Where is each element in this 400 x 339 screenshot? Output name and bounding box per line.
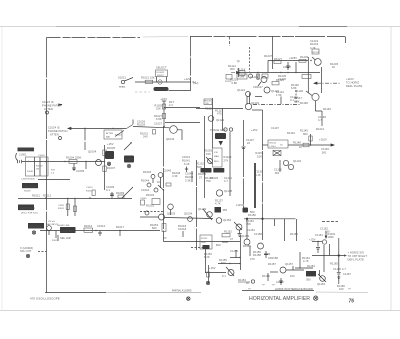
- svg-text:100K: 100K: [328, 235, 335, 239]
- svg-text:R1052: R1052: [146, 204, 155, 208]
- svg-text:Q1143: Q1143: [293, 159, 302, 163]
- svg-text:VAR ATTEN: VAR ATTEN: [20, 206, 35, 210]
- svg-text:Q1159: Q1159: [241, 234, 250, 238]
- svg-text:+15V: +15V: [309, 238, 316, 242]
- svg-text:+110V: +110V: [319, 138, 327, 142]
- svg-text:C1016: C1016: [97, 224, 106, 228]
- svg-text:476 OSCILLOSCOPE: 476 OSCILLOSCOPE: [30, 296, 60, 300]
- svg-text:4.7K: 4.7K: [215, 202, 221, 206]
- svg-text:ATTEN: ATTEN: [50, 132, 59, 136]
- svg-text:+225V: +225V: [289, 56, 297, 60]
- svg-text:Q1133: Q1133: [251, 101, 260, 105]
- svg-text:100: 100: [339, 287, 344, 291]
- svg-text:3.3K: 3.3K: [185, 179, 191, 183]
- svg-text:R1041: R1041: [182, 159, 191, 163]
- svg-text:1K: 1K: [332, 65, 336, 69]
- svg-text:CAL / VAR: CAL / VAR: [23, 184, 36, 188]
- svg-text:R1044: R1044: [141, 179, 150, 183]
- svg-text:DS1021: DS1021: [157, 72, 166, 74]
- svg-text:1 V/5 mV: 1 V/5 mV: [46, 221, 56, 223]
- svg-text:+15V: +15V: [251, 128, 258, 132]
- svg-text:C1157: C1157: [276, 280, 284, 284]
- svg-text:T1220: T1220: [238, 77, 245, 79]
- svg-text:R1T: R1T: [51, 170, 56, 172]
- svg-text:C1229: C1229: [250, 75, 259, 79]
- svg-text:ATTEN: ATTEN: [44, 107, 53, 111]
- svg-text:R1050: R1050: [198, 172, 207, 176]
- svg-text:2.2: 2.2: [169, 103, 173, 107]
- svg-text:HORIZONTAL AMPLIFIER: HORIZONTAL AMPLIFIER: [249, 296, 310, 302]
- svg-text:C1013: C1013: [86, 187, 93, 189]
- svg-text:+15V: +15V: [209, 266, 216, 270]
- svg-text:R1144: R1144: [270, 143, 277, 145]
- svg-text:C1024 IS: C1024 IS: [42, 100, 54, 104]
- svg-text:(PULL FOR X10): (PULL FOR X10): [21, 213, 38, 215]
- svg-text:R1241: R1241: [316, 127, 325, 131]
- svg-text:PARTIAL A13 BRD: PARTIAL A13 BRD: [172, 289, 192, 292]
- svg-text:6.8K: 6.8K: [291, 86, 297, 90]
- svg-text:T1150: T1150: [255, 170, 263, 174]
- svg-text:C1151: C1151: [247, 228, 255, 232]
- svg-text:Q1157: Q1157: [285, 262, 294, 266]
- svg-text:R1161: R1161: [290, 232, 298, 236]
- svg-text:C1137: C1137: [271, 126, 279, 130]
- svg-text:HORIZ INPUT: HORIZ INPUT: [19, 149, 35, 152]
- svg-text:+15V: +15V: [161, 97, 168, 101]
- svg-text:R1026: R1026: [137, 123, 146, 127]
- svg-text:BEAM FIND: BEAM FIND: [155, 88, 167, 91]
- svg-text:DELAY LINE: DELAY LINE: [57, 224, 70, 227]
- svg-text:BEAM: BEAM: [119, 86, 125, 89]
- svg-text:R1158: R1158: [253, 253, 261, 257]
- svg-text:C1230: C1230: [278, 77, 287, 81]
- svg-text:TO CRT RIGHT: TO CRT RIGHT: [348, 254, 368, 258]
- svg-text:C1155: C1155: [230, 249, 238, 253]
- svg-text:R1009: R1009: [24, 191, 31, 193]
- svg-text:R1219: R1219: [237, 68, 246, 72]
- svg-text:L1015 DLY: L1015 DLY: [61, 229, 74, 233]
- svg-text:C1003: C1003: [38, 155, 45, 157]
- svg-text:R1017: R1017: [116, 225, 125, 229]
- svg-text:TP: TP: [237, 60, 241, 64]
- svg-text:.001: .001: [274, 171, 280, 175]
- svg-text:+110V: +110V: [346, 77, 354, 81]
- svg-text:R1046: R1046: [143, 170, 152, 174]
- svg-text:C1027: C1027: [154, 122, 163, 126]
- svg-text:R1004 250K: R1004 250K: [66, 156, 82, 160]
- svg-text:C1005: C1005: [76, 169, 85, 173]
- svg-text:Q1004: Q1004: [88, 150, 97, 154]
- svg-text:Q1123: Q1123: [216, 118, 225, 122]
- svg-text:475: 475: [217, 112, 222, 116]
- svg-text:820: 820: [221, 261, 226, 265]
- svg-text:C1149: C1149: [321, 147, 329, 151]
- svg-text:L1144: L1144: [270, 146, 277, 148]
- svg-text:R1152: R1152: [201, 238, 208, 240]
- svg-text:560: 560: [250, 210, 255, 214]
- svg-text:R1132: R1132: [196, 162, 204, 166]
- svg-text:15K: 15K: [257, 155, 262, 159]
- svg-text:4.7: 4.7: [318, 118, 322, 122]
- svg-text:4.7: 4.7: [342, 267, 346, 271]
- svg-text:Q1034: Q1034: [166, 137, 175, 141]
- svg-text:C1024 IS: C1024 IS: [48, 126, 60, 130]
- svg-text:+ HORIZ SIG: + HORIZ SIG: [348, 251, 365, 255]
- svg-text:C1011: C1011: [58, 205, 65, 207]
- svg-text:4.7K: 4.7K: [303, 259, 309, 263]
- svg-text:R1243: R1243: [310, 42, 319, 46]
- svg-text:1K: 1K: [299, 145, 303, 149]
- svg-text:R1021 15K: R1021 15K: [141, 76, 155, 80]
- svg-text:4.7: 4.7: [224, 179, 228, 183]
- svg-text:6.8K: 6.8K: [232, 81, 238, 85]
- svg-text:C1044: C1044: [141, 188, 150, 192]
- svg-text:C1167: C1167: [343, 272, 351, 276]
- svg-text:R1012: R1012: [43, 194, 52, 198]
- svg-text:750: 750: [206, 179, 211, 183]
- svg-text:Q1164: Q1164: [317, 282, 326, 286]
- svg-text:0.1: 0.1: [222, 274, 226, 278]
- svg-text:R1145: R1145: [300, 129, 308, 133]
- svg-text:C1165: C1165: [333, 267, 341, 271]
- svg-text:S1001: S1001: [27, 171, 34, 173]
- svg-text:R1157: R1157: [268, 262, 276, 266]
- svg-text:R1011: R1011: [32, 194, 40, 198]
- svg-text:1K: 1K: [157, 180, 161, 184]
- svg-text:C1161: C1161: [315, 233, 323, 237]
- svg-text:Q1154: Q1154: [223, 218, 232, 222]
- svg-text:1.5K: 1.5K: [276, 93, 282, 97]
- svg-text:C1008 R1008: C1008 R1008: [21, 178, 35, 180]
- svg-text:R1160: R1160: [262, 274, 270, 278]
- svg-text:R1015: R1015: [52, 240, 59, 242]
- svg-text:R1147: R1147: [294, 96, 302, 100]
- svg-text:J1001: J1001: [19, 153, 27, 157]
- svg-text:9-16: 9-16: [255, 173, 261, 177]
- svg-text:360: 360: [223, 208, 228, 212]
- svg-text:R1148: R1148: [293, 141, 301, 145]
- svg-text:R1237: R1237: [264, 54, 273, 58]
- svg-text:R1011: R1011: [58, 208, 65, 210]
- svg-text:15K: 15K: [206, 152, 211, 156]
- svg-text:15K: 15K: [156, 107, 161, 111]
- svg-text:R1143: R1143: [287, 131, 295, 135]
- svg-text:R1005: R1005: [107, 146, 116, 150]
- svg-text:3.3K: 3.3K: [172, 174, 178, 178]
- svg-text:.001: .001: [321, 150, 327, 154]
- svg-text:GAIN: GAIN: [125, 157, 132, 161]
- svg-text:POSITION: POSITION: [29, 225, 42, 229]
- svg-text:240: 240: [143, 135, 148, 139]
- svg-text:0.1: 0.1: [106, 188, 110, 192]
- svg-text:C1150: C1150: [274, 168, 282, 172]
- svg-text:Q1054: Q1054: [184, 212, 193, 216]
- svg-text:S1021: S1021: [118, 76, 126, 80]
- svg-text:R1055: R1055: [204, 149, 213, 153]
- svg-text:TP: TP: [163, 236, 167, 240]
- svg-text:Q1053: Q1053: [167, 212, 176, 216]
- svg-text:R1216: R1216: [230, 78, 239, 82]
- svg-text:6.2K: 6.2K: [204, 255, 210, 259]
- svg-text:R1016: R1016: [84, 224, 93, 228]
- svg-text:R1151: R1151: [256, 151, 264, 155]
- svg-text:R1009: R1009: [116, 191, 125, 195]
- svg-text:DEFL PLATE: DEFL PLATE: [348, 258, 364, 262]
- svg-text:L1150: L1150: [236, 203, 244, 207]
- svg-text:820: 820: [152, 226, 157, 230]
- svg-text:1M: 1M: [36, 169, 39, 171]
- svg-text:R1045: R1045: [146, 193, 155, 197]
- svg-text:Q1139: Q1139: [198, 207, 207, 211]
- svg-text:REG: REG: [214, 161, 219, 163]
- svg-text:R1148: R1148: [300, 101, 308, 105]
- svg-text:820: 820: [216, 243, 221, 247]
- svg-text:900: 900: [303, 132, 308, 136]
- svg-text:R1149: R1149: [323, 107, 331, 111]
- svg-text:27K: 27K: [224, 159, 229, 163]
- svg-text:R1110: R1110: [205, 107, 213, 111]
- svg-text:SWP: SWP: [201, 242, 207, 244]
- svg-text:R1239: R1239: [300, 55, 309, 59]
- svg-text:6.2K: 6.2K: [184, 162, 190, 166]
- svg-text:300: 300: [230, 67, 235, 71]
- svg-text:C1158: C1158: [254, 232, 262, 236]
- svg-text:R1007: R1007: [107, 166, 116, 170]
- svg-text:910: 910: [290, 274, 295, 278]
- svg-text:Q1121: Q1121: [237, 88, 246, 92]
- svg-text:C1041: C1041: [182, 155, 191, 159]
- svg-text:1K: 1K: [246, 281, 250, 285]
- svg-text:TRACE SEP: TRACE SEP: [210, 128, 226, 132]
- svg-text:TO HORIZ: TO HORIZ: [346, 81, 359, 85]
- svg-text:+15V: +15V: [107, 142, 114, 146]
- svg-text:CR1158: CR1158: [268, 256, 278, 260]
- svg-text:C1227: C1227: [283, 65, 292, 69]
- svg-text:C1046: C1046: [163, 169, 172, 173]
- svg-text:R1163: R1163: [307, 264, 315, 268]
- svg-text:470: 470: [250, 257, 255, 261]
- svg-text:ATTEN: ATTEN: [106, 132, 113, 135]
- svg-text:SEL HIR: SEL HIR: [60, 236, 71, 240]
- svg-text:C1018: C1018: [178, 227, 187, 231]
- svg-text:C1045: C1045: [140, 198, 147, 200]
- svg-text:MAG: MAG: [214, 155, 219, 158]
- svg-text:SELECT: SELECT: [156, 66, 167, 70]
- svg-text:15K: 15K: [246, 222, 251, 226]
- svg-text:4.7K: 4.7K: [310, 46, 316, 50]
- svg-text:Q1138: Q1138: [224, 189, 233, 193]
- svg-text:+12V: +12V: [184, 77, 191, 81]
- svg-text:R1129: R1129: [224, 155, 232, 159]
- svg-text:R1003: R1003: [36, 166, 43, 168]
- svg-text:R1152: R1152: [224, 230, 232, 234]
- svg-text:HORIZ IN INTERFACE BOARD: HORIZ IN INTERFACE BOARD: [275, 287, 313, 291]
- svg-text:76: 76: [349, 298, 355, 304]
- svg-text:DEFL PLATE: DEFL PLATE: [346, 84, 362, 88]
- svg-text:47: 47: [230, 237, 234, 241]
- svg-text:R1165: R1165: [330, 262, 338, 266]
- svg-text:R1227: R1227: [274, 57, 283, 61]
- svg-text:R1241: R1241: [313, 52, 320, 54]
- svg-text:360: 360: [306, 278, 311, 282]
- svg-text:27: 27: [199, 176, 203, 180]
- svg-text:22: 22: [247, 141, 251, 145]
- svg-text:SIG OUT: SIG OUT: [20, 249, 32, 253]
- svg-text:6.8K: 6.8K: [156, 117, 162, 121]
- svg-text:(5H): (5H): [193, 81, 198, 85]
- svg-text:R1023: R1023: [157, 75, 164, 77]
